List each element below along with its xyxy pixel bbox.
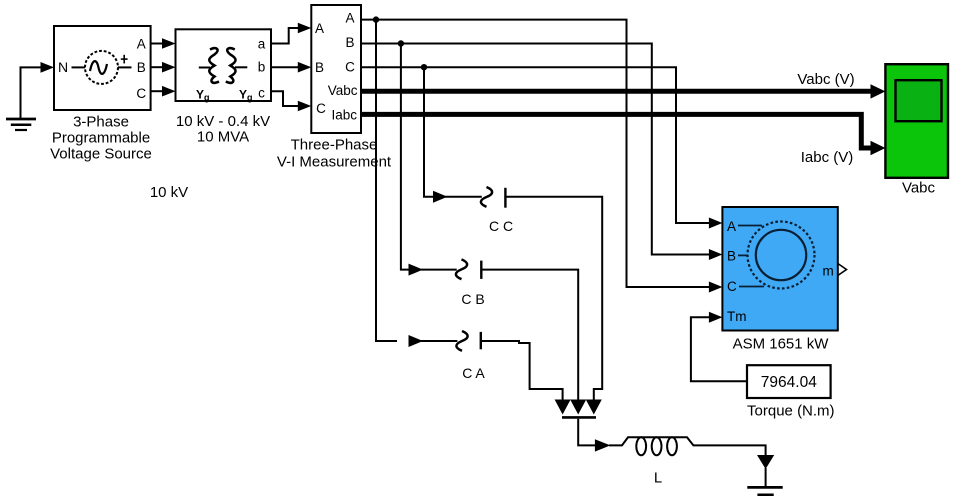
svg-text:A: A — [345, 10, 354, 25]
svg-text:C: C — [316, 101, 326, 116]
svg-text:Iabc: Iabc — [331, 107, 357, 122]
wire: bus to inductor branch — [578, 419, 596, 446]
wire: source A to transformer — [151, 38, 176, 49]
block caption: Three-Phase V-I Measurement — [277, 136, 392, 170]
transformer right lead — [235, 66, 247, 68]
svg-text:C: C — [345, 59, 355, 74]
bus bar — [562, 416, 596, 419]
svg-text:L: L — [654, 470, 662, 487]
wire: V-I A output to ASM C input — [361, 20, 722, 293]
svg-text:B: B — [345, 35, 354, 50]
svg-text:B: B — [137, 60, 146, 75]
stub C to stator — [739, 286, 764, 288]
breaker CC — [481, 187, 506, 208]
wire: arrow to inductor — [609, 437, 766, 456]
svg-text:10 kV: 10 kV — [150, 184, 188, 201]
transformer block: 10 kV - 0.4 kV 10 MVA — [176, 29, 272, 101]
block caption: 3-Phase Programmable Voltage Source — [50, 114, 152, 163]
svg-text:N: N — [58, 59, 68, 75]
wire: N to AC symbol — [72, 66, 86, 68]
inductor L — [636, 437, 677, 455]
svg-text:Voltage Source: Voltage Source — [50, 146, 152, 163]
svg-text:Vabc: Vabc — [328, 83, 358, 98]
wire: AC symbol right lead — [118, 66, 132, 68]
svg-text:Vabc (V): Vabc (V) — [797, 71, 854, 88]
plus polarity mark — [121, 55, 128, 64]
svg-text:Torque (N.m): Torque (N.m) — [747, 403, 835, 420]
wire: V-I B output to ASM B input — [361, 44, 722, 261]
svg-text:Three-Phase: Three-Phase — [291, 136, 378, 153]
wire: C junction down to breaker CC — [424, 67, 482, 203]
block caption: 10 kV - 0.4 kV 10 MVA — [176, 113, 270, 146]
output port chevron m — [838, 264, 847, 276]
wire: breaker CA to bus — [481, 341, 563, 401]
svg-text:3-Phase: 3-Phase — [73, 114, 129, 131]
svg-text:C: C — [727, 279, 737, 294]
wire: ground to source N input — [20, 62, 55, 73]
display block: Torque constant 7964.04 — [747, 365, 831, 398]
sine wave glyph — [90, 61, 107, 74]
svg-text:A: A — [727, 219, 736, 234]
wire: A junction down to breaker CA — [376, 20, 457, 347]
svg-text:ASM 1651 kW: ASM 1651 kW — [733, 335, 830, 352]
breaker CB — [456, 259, 481, 279]
stub A to stator — [738, 225, 762, 227]
svg-text:b: b — [258, 60, 266, 75]
svg-text:A: A — [315, 21, 324, 36]
svg-text:Vabc: Vabc — [902, 179, 936, 196]
breaker CA — [456, 331, 480, 351]
node: junction on B output — [398, 40, 404, 46]
svg-text:10 kV - 0.4 kV: 10 kV - 0.4 kV — [176, 113, 270, 130]
transformer left lead — [199, 67, 210, 69]
svg-text:C A: C A — [462, 365, 485, 381]
svg-text:Iabc (V): Iabc (V) — [801, 149, 854, 166]
ground symbol (right, after inductor) — [747, 455, 782, 495]
svg-text:B: B — [727, 249, 736, 264]
scope block: Vabc — [885, 64, 948, 178]
transformer right winding — [226, 48, 236, 83]
svg-text:C: C — [136, 86, 146, 101]
svg-text:C C: C C — [489, 218, 513, 234]
svg-text:c: c — [258, 86, 265, 101]
wire: transformer a to V-I A — [271, 23, 311, 44]
bus merge arrows — [555, 400, 571, 415]
wire: breaker CB to bus — [481, 270, 578, 401]
scope screen — [896, 80, 942, 121]
V-I measurement block: Three-Phase V-I Measurement — [311, 5, 361, 133]
transformer left winding — [209, 48, 219, 83]
wire: torque display to ASM Tm input — [691, 312, 747, 382]
svg-text:m: m — [823, 264, 834, 279]
wire: transformer b to V-I B — [271, 62, 311, 73]
wire: breaker CC to bus — [505, 197, 602, 401]
svg-text:Programmable: Programmable — [52, 130, 150, 147]
thick wire: Iabc to scope — [361, 114, 885, 155]
svg-text:7964.04: 7964.04 — [761, 374, 817, 391]
wire: B junction down to breaker CB — [401, 44, 457, 276]
wire: source C to transformer — [151, 86, 176, 97]
svg-text:10 MVA: 10 MVA — [197, 129, 249, 146]
svg-text:V-I Measurement: V-I Measurement — [277, 153, 392, 170]
ASM machine block: ASM 1651 kW — [722, 207, 837, 331]
stub B to stator — [738, 254, 748, 256]
machine stator circle — [748, 222, 815, 289]
wire: source B to transformer — [151, 62, 176, 73]
voltage source block: 3-Phase Programmable Voltage Source — [54, 26, 151, 110]
node: junction on C output — [421, 64, 427, 70]
svg-text:a: a — [258, 36, 266, 51]
wire: transformer c to V-I C — [271, 91, 311, 111]
svg-text:B: B — [315, 60, 324, 75]
wire: V-I C output to ASM A input — [361, 67, 722, 228]
ground symbol (left, source neutral) — [6, 67, 36, 130]
thick wire: Vabc to scope — [361, 84, 885, 98]
svg-text:C B: C B — [461, 291, 484, 307]
node: junction on A output — [373, 16, 379, 22]
machine rotor circle — [756, 230, 806, 280]
svg-text:A: A — [137, 36, 146, 51]
svg-text:Tm: Tm — [727, 309, 747, 324]
AC source symbol circle — [85, 51, 118, 84]
